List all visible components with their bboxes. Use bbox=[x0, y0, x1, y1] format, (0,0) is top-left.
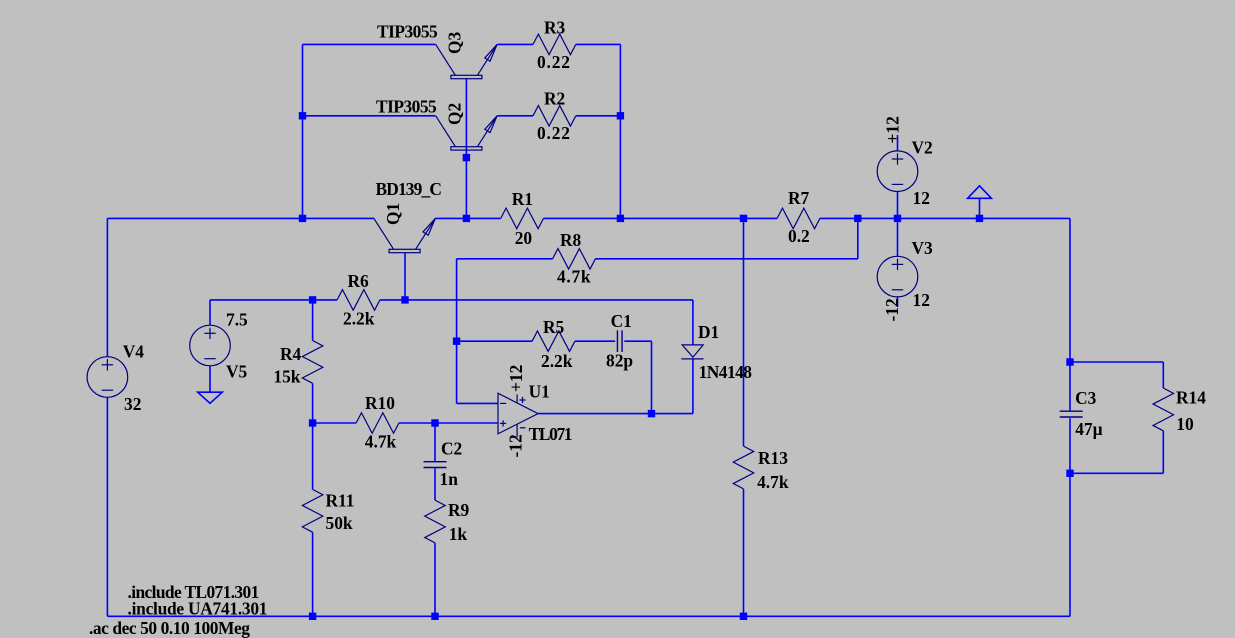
voltage source V4 bbox=[87, 357, 128, 398]
wire R2 to right rail bbox=[576, 115, 621, 117]
svg-text:4.7k: 4.7k bbox=[557, 267, 591, 287]
wire C2 to R9 bbox=[434, 468, 436, 500]
capacitor C1 bbox=[617, 330, 622, 352]
wire R10 left lead bbox=[313, 422, 357, 424]
junction V2/V3 bbox=[894, 215, 901, 222]
wire C3 to bottom rail bbox=[1069, 418, 1071, 616]
svg-text:4.7k: 4.7k bbox=[365, 432, 397, 452]
wire V5 to R6 bbox=[210, 299, 313, 301]
resistor R5 bbox=[532, 331, 575, 352]
voltage source V3 bbox=[877, 256, 918, 297]
wire C2 top lead bbox=[434, 423, 436, 461]
wire V5 bottom stub bbox=[209, 366, 211, 392]
junction R13 bottom bbox=[740, 613, 747, 620]
wire Q2 collector to left rail bbox=[303, 115, 436, 117]
wire R6 left lead bbox=[313, 299, 338, 301]
svg-text:C1: C1 bbox=[611, 311, 632, 331]
svg-text:R11: R11 bbox=[326, 491, 355, 511]
svg-text:V3: V3 bbox=[912, 238, 934, 258]
wire R14 top lead bbox=[1162, 362, 1164, 388]
svg-text:R6: R6 bbox=[348, 271, 370, 291]
wire bottom rail bbox=[107, 615, 1070, 617]
node output flag bbox=[968, 186, 992, 199]
svg-text:R10: R10 bbox=[365, 393, 395, 413]
junction C3 bottom / R14 bbox=[1066, 470, 1073, 477]
wire R3 to right rail bbox=[576, 43, 621, 45]
svg-text:2.2k: 2.2k bbox=[343, 309, 375, 329]
svg-text:TL071: TL071 bbox=[529, 424, 573, 444]
wire to R14 top bbox=[1070, 361, 1163, 363]
svg-text:R4: R4 bbox=[280, 344, 302, 364]
resistor R3 bbox=[533, 34, 576, 55]
junction R6/R4/V5 bbox=[309, 296, 316, 303]
wire V5 top stub bbox=[209, 300, 211, 325]
junction left rail / V4 bbox=[299, 215, 306, 222]
wire R9 bottom lead bbox=[434, 543, 436, 616]
svg-text:R8: R8 bbox=[560, 230, 582, 250]
op-amp U1 TL071 bbox=[498, 393, 538, 437]
transistor Q3 TIP3055 bbox=[436, 44, 497, 78]
svg-text:D1: D1 bbox=[698, 322, 719, 342]
wire Q1 base node to D1 top bbox=[405, 299, 693, 301]
wire R14 bottom to rail bbox=[1070, 472, 1163, 474]
svg-text:0.22: 0.22 bbox=[537, 52, 570, 72]
junction Q2 base bbox=[463, 154, 470, 161]
svg-text:R1: R1 bbox=[512, 189, 533, 209]
wire R8 left lead bbox=[457, 258, 553, 260]
svg-text:R14: R14 bbox=[1176, 388, 1206, 408]
svg-text:0.2: 0.2 bbox=[788, 226, 810, 246]
svg-text:20: 20 bbox=[515, 228, 533, 248]
wire R11 bottom lead bbox=[312, 532, 314, 616]
svg-text:10: 10 bbox=[1176, 414, 1194, 434]
capacitor C2 bbox=[424, 462, 447, 468]
wire C1 down to output bbox=[651, 341, 653, 413]
wire down to D1 bbox=[692, 300, 694, 345]
wire V4 bottom to ground rail bbox=[106, 397, 108, 616]
wire Q3 collector to left rail bbox=[303, 43, 436, 45]
wire output flag stem bbox=[979, 198, 981, 218]
junction R8 feedback bbox=[854, 215, 861, 222]
svg-text:V2: V2 bbox=[912, 138, 933, 158]
svg-text:TIP3055: TIP3055 bbox=[377, 22, 438, 42]
wire V4 top to Q1 collector bbox=[107, 217, 374, 219]
svg-text:50k: 50k bbox=[326, 513, 353, 533]
wire right rail to C3 bbox=[1069, 218, 1071, 410]
resistor R9 bbox=[425, 500, 446, 543]
svg-text:V5: V5 bbox=[226, 362, 248, 382]
wire R5 left lead bbox=[457, 340, 532, 342]
svg-text:R5: R5 bbox=[543, 317, 565, 337]
svg-text:U1: U1 bbox=[529, 382, 550, 402]
wire output rail to V3 bbox=[897, 218, 899, 256]
resistor R2 bbox=[533, 106, 576, 127]
wire to op-amp - input bbox=[457, 402, 498, 404]
junction Q1 emitter / bases bbox=[463, 215, 470, 222]
svg-text:0.22: 0.22 bbox=[537, 123, 570, 143]
svg-text:R9: R9 bbox=[448, 500, 470, 520]
junction R5/R8 node bbox=[453, 338, 460, 345]
wire R13 bottom lead bbox=[743, 489, 745, 616]
svg-text:32: 32 bbox=[124, 394, 141, 414]
svg-text:1n: 1n bbox=[440, 469, 459, 489]
wire R8 up to output node bbox=[857, 218, 859, 258]
resistor R6 bbox=[337, 290, 380, 311]
resistor R10 bbox=[356, 413, 399, 434]
svg-text:.ac dec 50 0.10 100Meg: .ac dec 50 0.10 100Meg bbox=[89, 618, 250, 638]
svg-text:7.5: 7.5 bbox=[226, 310, 248, 330]
resistor R4 bbox=[302, 341, 323, 384]
svg-text:-12: -12 bbox=[882, 298, 902, 321]
wire R1 to R7 bbox=[544, 217, 778, 219]
svg-text:1k: 1k bbox=[449, 524, 468, 544]
junction right rail / R1 bbox=[617, 215, 624, 222]
junction left rail / Q2 collector bbox=[299, 112, 306, 119]
wire R8/R5 node vertical bbox=[456, 259, 458, 404]
wire R4 top lead bbox=[312, 300, 314, 341]
wire R4 bottom lead bbox=[312, 383, 314, 423]
wire V2 plus stub bbox=[897, 135, 899, 151]
wire R5 to C1 bbox=[575, 340, 615, 342]
svg-text:+12: +12 bbox=[506, 365, 526, 392]
wire R13 top lead bbox=[743, 218, 745, 446]
svg-text:82p: 82p bbox=[606, 351, 633, 371]
svg-text:R13: R13 bbox=[758, 448, 788, 468]
junction R11 bottom bbox=[309, 613, 316, 620]
svg-text:+12: +12 bbox=[883, 116, 903, 143]
svg-text:47µ: 47µ bbox=[1075, 419, 1102, 439]
wire Q1 base down bbox=[404, 253, 406, 300]
transistor Q2 TIP3055 bbox=[436, 116, 497, 150]
svg-text:C3: C3 bbox=[1075, 388, 1097, 408]
svg-text:12: 12 bbox=[913, 188, 930, 208]
resistor R1 bbox=[501, 208, 544, 229]
wire Q2 emitter to R2 bbox=[497, 115, 533, 117]
wire left rail vertical bbox=[302, 44, 304, 218]
transistor Q1 BD139_C bbox=[374, 218, 435, 252]
junction right rail / R2 bbox=[617, 112, 624, 119]
diode D1 1N4148 bbox=[681, 345, 703, 359]
junction R9 bottom bbox=[431, 613, 438, 620]
ground bbox=[198, 392, 223, 403]
wire R10 to op-amp + bbox=[399, 422, 498, 424]
svg-text:-12: -12 bbox=[506, 434, 526, 457]
svg-text:V4: V4 bbox=[123, 342, 145, 362]
svg-text:Q3: Q3 bbox=[445, 31, 465, 54]
svg-text:TIP3055: TIP3055 bbox=[376, 97, 437, 117]
voltage source V2 bbox=[877, 151, 918, 192]
junction C1/output bbox=[648, 410, 655, 417]
wire D1 to output bbox=[692, 359, 694, 414]
svg-text:R3: R3 bbox=[544, 18, 566, 38]
wire Q1 emitter to R1 bbox=[435, 217, 501, 219]
junction R10/C2/op-amp + bbox=[431, 419, 438, 426]
wire V2 minus to output rail bbox=[897, 192, 899, 219]
svg-text:C2: C2 bbox=[441, 439, 462, 459]
capacitor C3 bbox=[1060, 411, 1083, 417]
svg-text:1N4148: 1N4148 bbox=[699, 362, 753, 382]
resistor R13 bbox=[733, 446, 754, 489]
wire C1 right lead bbox=[624, 340, 651, 342]
svg-text:BD139_C: BD139_C bbox=[376, 179, 442, 199]
resistor R7 bbox=[777, 208, 820, 229]
wire op-amp output bbox=[538, 413, 693, 415]
svg-text:R2: R2 bbox=[544, 89, 565, 109]
junction R13 top bbox=[740, 215, 747, 222]
wire right rail R3/R2 down bbox=[619, 44, 621, 218]
wire R11 top lead bbox=[312, 423, 314, 489]
svg-text:R7: R7 bbox=[788, 188, 810, 208]
wire Q3 emitter to R3 bbox=[497, 43, 533, 45]
junction output flag bbox=[976, 215, 983, 222]
wire R7 to output rail bbox=[820, 217, 1070, 219]
resistor R14 bbox=[1153, 388, 1174, 431]
wire Q3 base to Q2 base to node bbox=[465, 79, 467, 219]
junction R4/R10/R11 bbox=[309, 419, 316, 426]
svg-text:Q2: Q2 bbox=[445, 103, 465, 125]
voltage source V5 bbox=[190, 325, 231, 366]
resistor R11 bbox=[302, 489, 323, 532]
wire R6 right lead bbox=[380, 299, 405, 301]
svg-text:Q1: Q1 bbox=[383, 203, 403, 225]
resistor R8 bbox=[553, 249, 596, 269]
wire V3 minus stub bbox=[897, 297, 899, 307]
svg-text:15k: 15k bbox=[273, 366, 300, 386]
svg-text:.include UA741.301: .include UA741.301 bbox=[128, 599, 268, 619]
svg-text:4.7k: 4.7k bbox=[757, 472, 789, 492]
wire R14 bottom lead bbox=[1162, 431, 1164, 474]
wire R8 right lead bbox=[595, 258, 857, 260]
svg-text:2.2k: 2.2k bbox=[541, 351, 573, 371]
svg-text:12: 12 bbox=[913, 290, 930, 310]
wire V4 top stub bbox=[106, 218, 108, 356]
junction Q1 base node bbox=[401, 296, 408, 303]
junction C3 top / R14 bbox=[1066, 358, 1073, 365]
